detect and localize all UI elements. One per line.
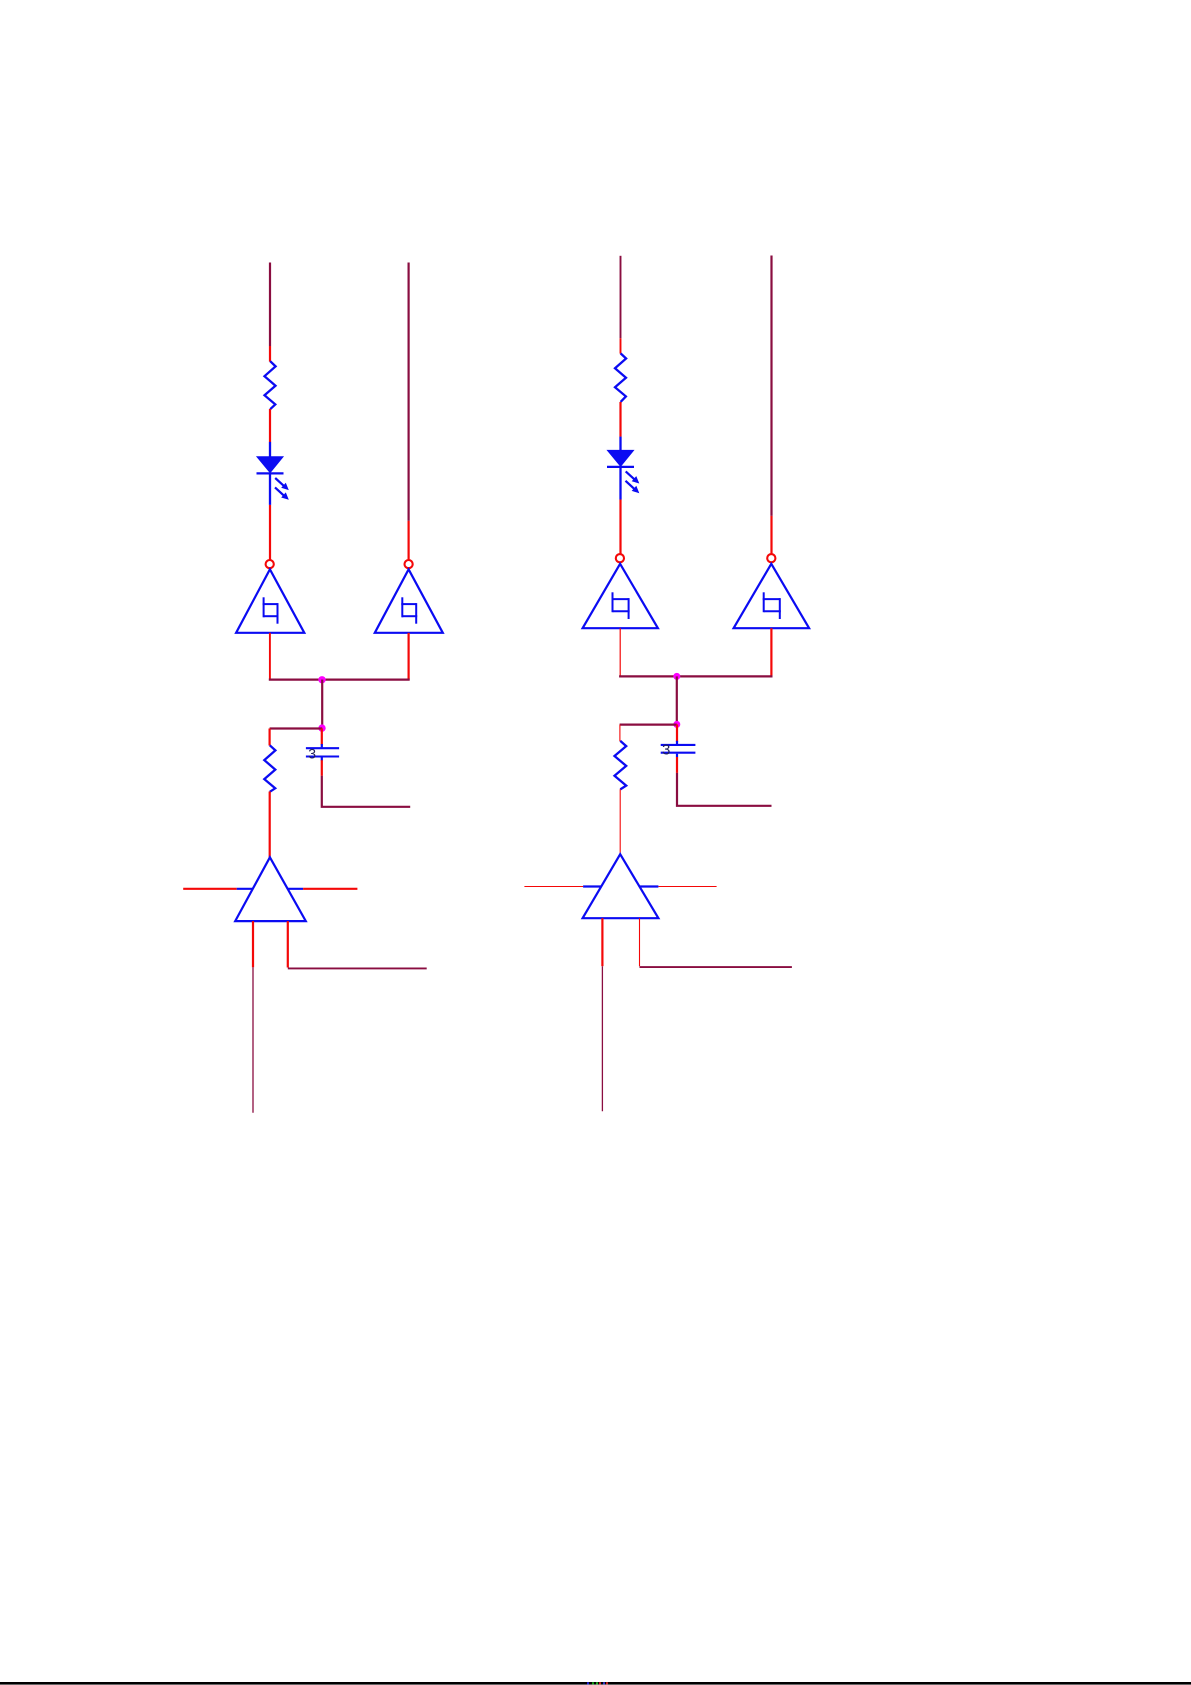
svg-text:3: 3 [308, 746, 316, 762]
wire red R2 to op-amp [269, 792, 271, 859]
wire net1 red segment above R1 [269, 346, 271, 362]
wire red below U6 left pin [601, 918, 603, 966]
LED D2 body [608, 450, 634, 466]
wire maroon horizontal J2 to R2 [270, 727, 323, 729]
resistor R4 [615, 741, 627, 790]
buffer U2 hysteresis symbol [401, 597, 417, 623]
op-amp U6 input blue stub line [583, 885, 658, 887]
wire maroon horizontal from U3 right pin [288, 967, 427, 969]
wire maroon thin down from U3 left pin [252, 967, 254, 1112]
pin circle U2 [405, 560, 413, 568]
wire maroon horizontal from U6 right pin [640, 966, 792, 968]
buffer U4 hysteresis symbol [612, 592, 630, 619]
capacitor C2 bottom stub [676, 754, 678, 758]
wire red below U3 right pin [287, 921, 289, 967]
wire bus maroon horizontal joining outputs right [619, 675, 772, 677]
buffer U2 triangle [375, 569, 443, 633]
wire net3 red segment above R3 [620, 338, 622, 353]
wire red J4 down to C2 [676, 724, 678, 742]
pin circle U1 [266, 560, 274, 568]
junction J2 [318, 724, 325, 731]
LED D1 cathode wire [269, 473, 271, 505]
wire red LED2 to pin circle [619, 500, 621, 554]
LED D1 light arrow 2 [275, 487, 289, 499]
op-amp U6 input wire red thin left [524, 886, 583, 888]
capacitor C1 plates [306, 748, 339, 756]
wire red thin below U6 right pin [639, 918, 641, 966]
wire red LED to pin circle [269, 505, 271, 560]
wire red below C1 [321, 760, 323, 776]
wire red thin R4 to op-amp [619, 789, 621, 854]
op-amp U3 output wire red right [303, 888, 357, 890]
wire red R1 to LED [269, 409, 271, 442]
wire red thin down to R4 [619, 725, 621, 742]
junction J3 [673, 673, 680, 680]
junction J4 [673, 721, 680, 728]
LED D1 anode wire [269, 442, 271, 458]
capacitor C2 plates [661, 745, 696, 753]
LED D1 light arrow 1 [275, 478, 289, 490]
wire maroon vertical J3 to J4 [676, 676, 678, 724]
page footer bar [0, 1682, 1191, 1685]
LED D1 body [257, 457, 283, 473]
buffer U5 triangle [734, 564, 810, 628]
resistor R3 [615, 353, 626, 402]
wire maroon below C1 [322, 776, 410, 807]
junction J1 [318, 676, 325, 683]
wire U2 output red [408, 633, 410, 680]
buffer U5 hysteresis symbol [763, 592, 781, 619]
wire maroon vertical J1 to J2 [321, 680, 323, 729]
capacitor C2 top stub [676, 741, 678, 744]
wire red down to R2 [269, 729, 271, 746]
LED D2 cathode bar [607, 466, 634, 468]
op-amp U6 triangle [583, 854, 659, 918]
wire U5 output red [770, 628, 772, 676]
buffer U1 hysteresis symbol [263, 597, 279, 623]
wire red R3 to LED [619, 402, 621, 437]
wire net4 red segment [770, 516, 772, 554]
wire net3 top vertical (maroon) [620, 256, 622, 338]
op-amp U3 input blue stub line [237, 888, 303, 890]
wire red below U3 left pin [252, 921, 254, 967]
wire red below C2 [676, 757, 678, 773]
LED D2 anode wire [619, 437, 621, 451]
resistor R2 [264, 745, 275, 792]
wire bus maroon horizontal joining outputs [269, 678, 410, 680]
wire maroon horizontal J4 to R4 [620, 723, 677, 725]
buffer U1 triangle [236, 569, 304, 633]
resistor R1 [265, 361, 276, 409]
footer colored marks [587, 1682, 608, 1684]
wire net1 top vertical (maroon) [269, 263, 271, 347]
pin circle U5 [767, 554, 775, 562]
op-amp U3 input wire red left [183, 888, 237, 890]
wire U4 output red thin [619, 628, 621, 676]
pin circle U4 [616, 554, 624, 562]
op-amp U3 triangle [235, 857, 306, 921]
buffer U4 triangle [583, 564, 658, 628]
capacitor C1 top stub [321, 744, 323, 747]
capacitor C1 bottom stub [321, 758, 323, 761]
wire U1 output red thin [269, 633, 271, 680]
svg-text:3: 3 [662, 741, 670, 758]
wire net2 top vertical (maroon) [408, 263, 410, 521]
wire net2 red segment [408, 521, 410, 560]
wire maroon below C2 [677, 773, 772, 806]
LED D2 light arrow 1 [626, 471, 640, 483]
wire red J2 down to C1 [321, 728, 323, 745]
LED D2 light arrow 2 [626, 481, 640, 493]
LED D1 cathode bar [257, 472, 284, 474]
op-amp U6 output wire red thin right [658, 886, 716, 888]
wire net4 top vertical (maroon) [770, 256, 772, 516]
wire maroon thin down from U6 left pin [601, 966, 603, 1111]
LED D2 cathode wire [619, 467, 621, 500]
